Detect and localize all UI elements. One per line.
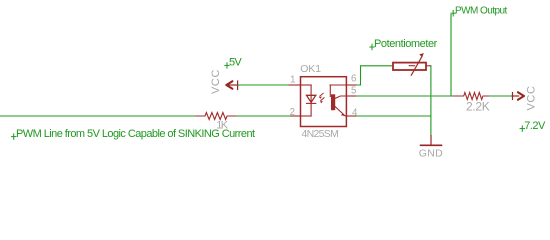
pin 1 stub (289, 84, 301, 86)
wire pin5 output rail (356, 95, 453, 97)
emitter to pin 4 (335, 107, 346, 116)
svg-text:2: 2 (290, 107, 295, 118)
wire pin4 to GND rail (356, 115, 431, 117)
net label 7.2V (520, 126, 524, 131)
pin 4 stub (346, 115, 356, 117)
svg-text:Potentiometer: Potentiometer (374, 38, 438, 50)
net label PWM Line (12, 134, 16, 140)
phototransistor inside opto (329, 85, 331, 97)
pin 2 stub (291, 115, 301, 117)
wire pin6 up to potentiometer (356, 66, 392, 85)
ground GND (430, 136, 432, 146)
svg-text:PWM Line from 5V Logic Capable: PWM Line from 5V Logic Capable of SINKIN… (16, 128, 255, 140)
collector to pin 5 (335, 96, 346, 98)
label Potentiometer (370, 44, 374, 50)
supply VCC arrow (7.2V, right) (512, 93, 519, 100)
svg-text:6: 6 (351, 73, 356, 84)
pot right lead (426, 65, 431, 67)
wire VCC arrow to opto pin1 (238, 84, 290, 86)
svg-text:VCC: VCC (526, 85, 538, 110)
net label PWM Output (451, 11, 455, 17)
optocoupler OK1 box (301, 77, 347, 127)
svg-text:GND: GND (419, 148, 443, 160)
svg-text:5: 5 (351, 86, 356, 97)
potentiometer wiper arrow (411, 57, 422, 76)
wire pot right down to GND rail (430, 66, 432, 136)
svg-text:VCC: VCC (210, 69, 222, 94)
wire R1 to opto pin2 (237, 115, 291, 117)
LED light arrows (320, 93, 324, 100)
svg-text:1: 1 (290, 75, 295, 86)
svg-text:5V: 5V (229, 57, 242, 69)
wire PWM Line net, left segment to 1K resistor (0, 115, 196, 117)
svg-text:PWM Output: PWM Output (455, 5, 508, 16)
pin 5 stub (346, 95, 356, 97)
net label 5V (225, 63, 229, 68)
svg-text:OK1: OK1 (300, 63, 321, 75)
svg-text:7.2V: 7.2V (524, 120, 546, 132)
supply VCC arrow (5V, left) (227, 81, 239, 90)
pin 6 stub (346, 84, 356, 86)
svg-text:2.2K: 2.2K (466, 99, 490, 113)
resistor R3 2.2K (453, 93, 490, 100)
LED inside opto (301, 85, 316, 116)
svg-text:4: 4 (352, 108, 358, 119)
potentiometer R2 body (393, 63, 426, 70)
wire PWM Output vertical (450, 15, 452, 97)
wire 2.2K to VCC arrow (490, 95, 512, 97)
resistor R1 1K (196, 113, 236, 120)
svg-text:4N25SM: 4N25SM (302, 128, 339, 140)
